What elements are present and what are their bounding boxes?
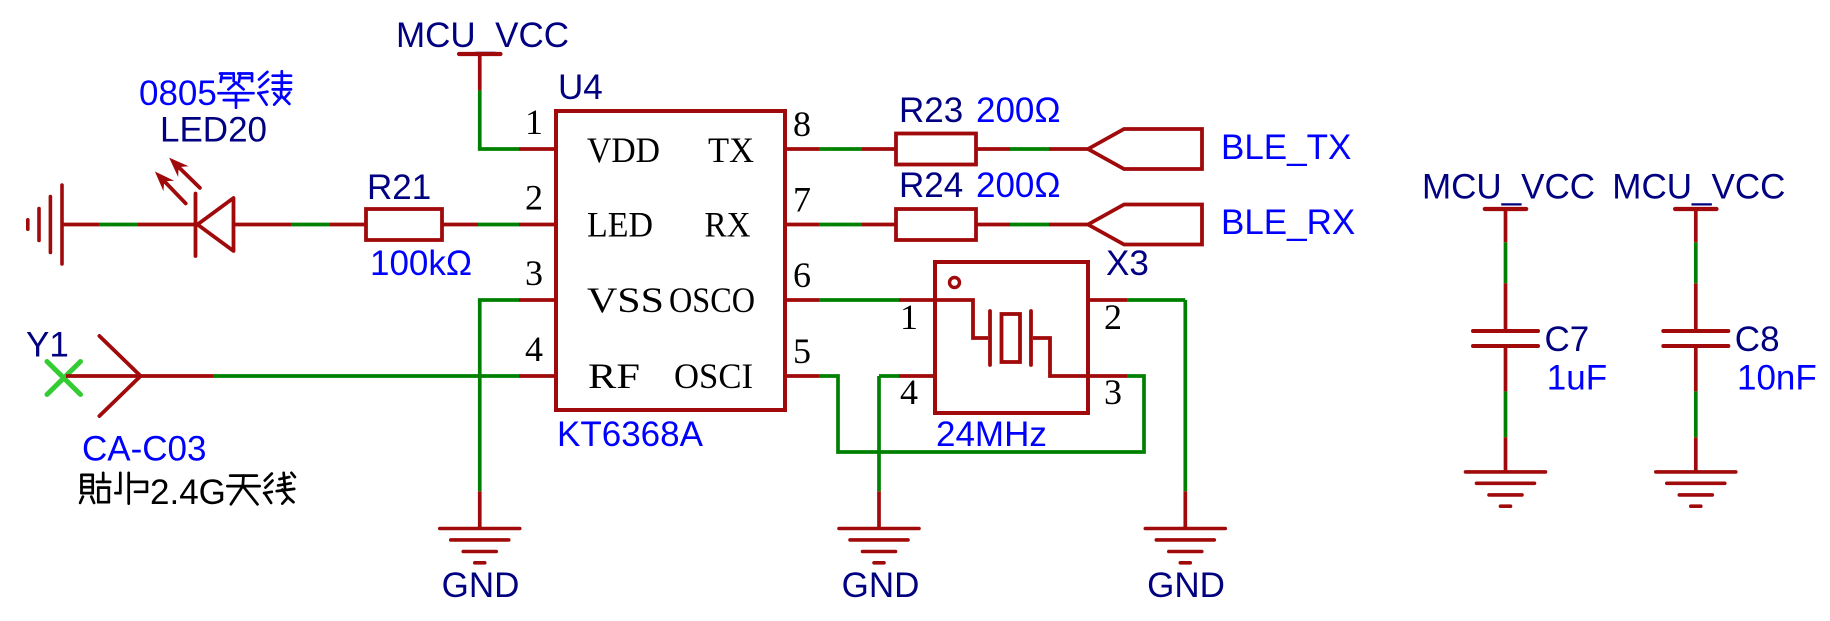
U4 pin 5 lead (OSCI) [785,374,819,378]
svg-text:KT6368A: KT6368A [557,415,704,454]
wire R24 to port BLE_RX [1010,223,1049,227]
svg-text:MCU_VCC: MCU_VCC [396,16,569,55]
svg-text:U4: U4 [558,68,603,107]
antenna Y1 [47,362,81,395]
label 贴片2.4G天线 [82,474,93,477]
svg-text:4: 4 [900,372,918,412]
crystal pin 1 lead [899,298,935,302]
ground GND (below C7) [1504,437,1508,472]
svg-text:VDD: VDD [587,130,660,170]
svg-text:10nF: 10nF [1737,359,1817,398]
svg-text:0805: 0805 [139,74,217,113]
capacitor C8 [1694,283,1698,331]
svg-text:GND: GND [1147,566,1225,605]
svg-text:MCU_VCC: MCU_VCC [1422,168,1595,207]
svg-text:4: 4 [525,329,543,369]
crystal X3 24MHz body [935,262,1088,413]
U4 pin 8 lead [785,147,819,151]
U4 pin 3 lead [519,298,556,302]
svg-text:24MHz: 24MHz [936,415,1047,454]
LED LED20 [138,223,196,227]
LED emission arrow 1 [164,181,185,203]
svg-text:3: 3 [525,253,543,293]
crystal pin 2 lead [1088,298,1127,302]
svg-text:5: 5 [793,331,811,371]
svg-text:1: 1 [900,297,918,337]
svg-text:BLE_RX: BLE_RX [1221,203,1355,242]
U4 pin 2 lead [519,223,556,227]
svg-text:Y1: Y1 [26,325,69,364]
svg-text:RX: RX [705,205,751,245]
svg-text:GND: GND [842,566,920,605]
crystal pin 4 lead [899,374,935,378]
wire MCU_VCC to C7 [1504,242,1508,283]
wire MCU_VCC to U4 pin 1 [478,90,482,149]
svg-text:2: 2 [1104,297,1122,337]
resistor R23 [862,147,896,151]
svg-text:TX: TX [708,130,754,170]
resistor R24 [862,223,896,227]
svg-text:6: 6 [793,255,811,295]
svg-text:RF: RF [588,356,640,396]
svg-text:X3: X3 [1106,244,1149,283]
svg-text:C7: C7 [1545,320,1590,359]
svg-text:LED20: LED20 [160,111,267,150]
ground GND (below crystal pin 4) [877,491,881,528]
svg-text:C8: C8 [1735,320,1780,359]
wire MCU_VCC to C8 [1694,242,1698,283]
U4 pin 7 lead [785,223,819,227]
svg-text:VSS: VSS [587,280,664,320]
svg-text:2.4G: 2.4G [150,473,226,512]
U4 pin 4 lead [519,374,556,378]
svg-text:3: 3 [1104,372,1122,412]
wire U4 pin 3 (VSS) to GND [478,298,519,302]
svg-text:200Ω: 200Ω [976,91,1061,130]
svg-text:R21: R21 [367,168,431,207]
port BLE_RX [1088,205,1202,245]
LED emission arrow 2 [179,167,200,188]
wire antenna to U4 pin 4 (RF) [213,374,519,378]
wire crystal pin 4 to GND [879,374,899,378]
svg-text:7: 7 [793,180,811,220]
svg-text:R23: R23 [899,91,963,130]
wire R23 to port BLE_TX [1010,147,1049,151]
svg-text:CA-C03: CA-C03 [82,430,206,469]
U4 pin 1 lead [519,147,556,151]
svg-text:8: 8 [793,104,811,144]
U4 pin 6 lead (OSCO) [785,298,819,302]
wire U4 pin 7 to R24 [819,223,862,227]
ground GND (below crystal pin 2) [1183,491,1187,528]
svg-text:100kΩ: 100kΩ [370,244,472,283]
port BLE_TX [1088,129,1202,169]
left ground symbol (LED anode net) [60,185,64,264]
wire U4 pin 8 to R23 [819,147,862,151]
wire C8 to GND [1694,391,1698,437]
op IC U4 KT6368A body [556,111,785,410]
wire ground to LED [62,223,99,227]
svg-text:OSCI: OSCI [674,356,753,396]
svg-text:LED: LED [587,205,653,245]
svg-text:2: 2 [525,178,543,218]
wire crystal pin 2 to GND [1127,298,1185,302]
svg-text:GND: GND [442,566,520,605]
wire R21 to U4 pin 2 [478,223,519,227]
svg-text:BLE_TX: BLE_TX [1221,128,1351,167]
wire C7 to GND [1504,391,1508,437]
svg-text:1: 1 [525,102,543,142]
wire OSCO to crystal pin 1 [819,298,899,302]
crystal pin 3 lead [1088,374,1127,378]
ground GND (below C8) [1694,437,1698,472]
ground GND (below U4) [478,491,482,528]
svg-text:MCU_VCC: MCU_VCC [1612,168,1785,207]
resistor R21 [330,223,366,227]
svg-text:1uF: 1uF [1547,359,1607,398]
svg-text:OSCO: OSCO [669,280,755,320]
capacitor C7 [1504,283,1508,331]
wire OSCI to crystal pin 3 [819,376,1144,452]
svg-text:R24: R24 [899,166,963,205]
wire LED to R21 [291,223,330,227]
svg-text:200Ω: 200Ω [976,166,1061,205]
